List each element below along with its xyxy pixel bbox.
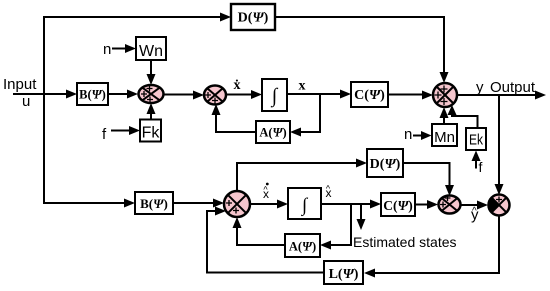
wire integrator 2 to C(psi) bottom xyxy=(321,200,381,209)
block integrator 1 xyxy=(262,79,287,111)
svg-text:Wn: Wn xyxy=(139,43,163,60)
wire S4 branch up to D(psi) bottom xyxy=(237,159,367,192)
wire f to Fk xyxy=(111,126,140,135)
wire Ek to S3 xyxy=(448,105,478,128)
wire output branch down to S6 xyxy=(495,95,504,195)
summing junction S1 xyxy=(139,85,164,103)
wire branch xhat to A(psi) bottom xyxy=(320,204,351,250)
svg-text:y: y xyxy=(476,79,484,96)
svg-text:C(Ψ): C(Ψ) xyxy=(354,88,385,103)
wire A(psi) bottom to S4 xyxy=(233,217,286,245)
svg-text:^: ^ xyxy=(472,206,477,217)
wire input branch vertical xyxy=(43,16,45,204)
wire C(psi) to S3 xyxy=(388,91,433,100)
wire top branch to D(psi) xyxy=(43,13,231,22)
block Wn xyxy=(136,37,166,60)
label xhatdot xyxy=(263,183,269,201)
svg-text:ẋ: ẋ xyxy=(234,78,241,93)
wire S3 to output xyxy=(457,91,546,100)
wire S4 to integrator 2 xyxy=(250,200,288,209)
block Mn xyxy=(432,124,457,146)
block integrator 2 xyxy=(288,188,321,219)
wire B(psi) to S1 xyxy=(108,90,138,99)
svg-text:D(Ψ): D(Ψ) xyxy=(370,157,401,172)
block D(psi) bottom xyxy=(367,149,403,177)
summing junction S3 xyxy=(433,83,457,107)
wire C(psi) bottom to S5 xyxy=(415,200,438,209)
summing junction S6 (comparator) xyxy=(489,195,510,216)
svg-text:Output: Output xyxy=(490,79,536,96)
svg-text:B(Ψ): B(Ψ) xyxy=(140,196,168,211)
wire n to Wn xyxy=(112,44,136,53)
block D(psi) top xyxy=(231,4,275,30)
svg-text:Mn: Mn xyxy=(434,129,455,146)
svg-text:n: n xyxy=(404,126,412,143)
wire Fk to summing junction S1 xyxy=(147,103,156,120)
wire integrator 1 to C(psi) xyxy=(288,90,351,99)
wire n to Mn xyxy=(413,131,432,140)
svg-text:Fk: Fk xyxy=(142,125,161,142)
block A(psi) bottom xyxy=(285,234,320,257)
wire Mn to S3 xyxy=(440,107,449,124)
svg-text:x: x xyxy=(299,79,306,94)
block B(psi) top xyxy=(77,83,108,105)
svg-text:n: n xyxy=(103,41,111,58)
svg-text:A(Ψ): A(Ψ) xyxy=(289,240,316,254)
wire Wn to summing junction S1 xyxy=(147,60,156,85)
summing junction S2 xyxy=(204,86,226,105)
wire branch x to A(psi) top xyxy=(290,94,320,137)
label xhat xyxy=(326,184,332,201)
svg-text:C(Ψ): C(Ψ) xyxy=(383,198,413,213)
wire f to Ek xyxy=(472,151,481,169)
svg-text:Ek: Ek xyxy=(469,132,483,149)
wire S2 to integrator 1 xyxy=(226,90,262,99)
wire D(psi) bottom to S5 xyxy=(403,163,454,196)
wire B(psi) bottom to S4 xyxy=(173,199,224,208)
svg-text:u: u xyxy=(22,93,30,110)
wire input u horizontal xyxy=(13,90,77,99)
wire branch estimated states arrow xyxy=(357,204,366,230)
svg-text:B(Ψ): B(Ψ) xyxy=(79,88,106,102)
block C(psi) top xyxy=(351,82,388,107)
block Ek xyxy=(466,128,486,150)
wire S5 to S6 xyxy=(461,201,489,210)
summing junction S5 xyxy=(439,195,461,214)
wire D(psi) top to summing junction S3 xyxy=(275,17,449,83)
block C(psi) bottom xyxy=(381,193,415,216)
svg-text:A(Ψ): A(Ψ) xyxy=(259,126,286,140)
block L(psi) xyxy=(324,261,363,284)
wire bottom branch to B(psi) bottom xyxy=(44,199,135,208)
label yhat xyxy=(471,206,479,224)
block A(psi) top xyxy=(256,121,290,143)
svg-text:f: f xyxy=(479,159,483,175)
block B(psi) bottom xyxy=(135,192,173,214)
svg-text:Input: Input xyxy=(3,76,37,93)
summing junction S4 xyxy=(224,191,250,217)
svg-text:Estimated states: Estimated states xyxy=(353,234,457,250)
block Fk xyxy=(140,120,161,142)
wire S6 to L(psi) xyxy=(364,216,499,278)
svg-text:L(Ψ): L(Ψ) xyxy=(329,267,359,282)
wire L(psi) to S4 xyxy=(207,207,324,273)
wire S1 to S2 xyxy=(164,91,205,100)
wire A(psi) top to S2 xyxy=(212,104,257,132)
svg-text:D(Ψ): D(Ψ) xyxy=(238,11,269,26)
